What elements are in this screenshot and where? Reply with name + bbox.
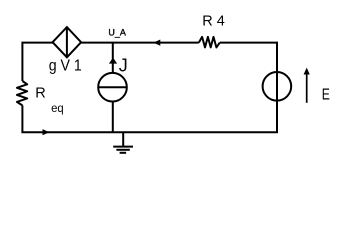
arrow of current source J (pointing up) (109, 58, 117, 64)
current source J (circle with horizontal chord) (98, 73, 127, 102)
voltage source E (circle on right rail) (263, 72, 292, 101)
wire top-left and left rail upper (corner at node) (22, 43, 52, 81)
svg-text:R: R (35, 86, 45, 102)
svg-text:g V 1: g V 1 (49, 58, 82, 75)
resistor R4 zigzag (199, 37, 220, 48)
wire top middle (diamond to R4) (81, 42, 199, 44)
ground bar 2 (116, 149, 129, 151)
ground bar 3 (120, 152, 127, 154)
ground stub (122, 132, 124, 146)
resistor Req zigzag (17, 81, 27, 105)
arrow on top wire (current arrow pointing left) (153, 40, 160, 46)
wire J branch upper (node U_A down to source J) (112, 43, 114, 73)
svg-text:E: E (322, 85, 330, 103)
svg-text:R 4: R 4 (202, 13, 225, 29)
arrow on bottom wire (current arrow pointing right) (43, 129, 50, 135)
ground bar 1 (113, 146, 133, 148)
arrow of source E (pointing up, beside circle) (304, 68, 310, 103)
wire J branch lower (source J to bottom rail) (112, 102, 114, 133)
controlled source g V 1 (diamond) (53, 27, 82, 57)
wire left rail lower, bottom rail, right rail, top-right segment (22, 43, 277, 133)
svg-text:J: J (119, 55, 128, 75)
svg-text:U_A: U_A (108, 27, 126, 37)
svg-text:eq: eq (51, 101, 64, 116)
